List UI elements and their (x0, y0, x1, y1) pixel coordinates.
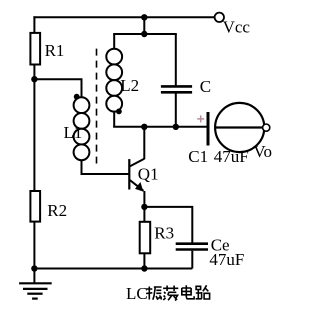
node R3 bottom junction dot (141, 265, 147, 271)
wire L1 bottom to base (82, 160, 130, 174)
node C bottom junction dot (173, 124, 179, 130)
node emitter junction dot (141, 204, 147, 210)
wire divider to L1 top (34, 79, 81, 97)
capacitor C (161, 34, 211, 127)
resistor R1 (30, 33, 64, 65)
node divider junction dot (31, 76, 37, 82)
capacitor C1 plate (188, 112, 248, 166)
svg-text:R3: R3 (154, 224, 174, 243)
node tank top T junction dot (141, 14, 147, 20)
wire tank bottom to C1 (113, 126, 207, 128)
wire bottom rail (34, 268, 192, 270)
output meter Vo circle (215, 103, 272, 161)
inductor L1 (64, 97, 90, 160)
wire L2 bottom lead (113, 111, 115, 127)
capacitor C1 polarity plus (197, 115, 204, 122)
inductor L2 (106, 49, 139, 112)
svg-text:LC: LC (126, 284, 148, 303)
glyph dian (182, 285, 194, 299)
caption LC oscillator circuit (126, 284, 210, 303)
wire L2 top lead (113, 34, 115, 49)
svg-text:Q1: Q1 (138, 164, 159, 183)
svg-text:C1: C1 (188, 147, 208, 166)
node collector junction dot (141, 124, 147, 130)
svg-text:Vo: Vo (253, 142, 272, 161)
wire emitter node to Ce (144, 207, 192, 243)
wire transformer core dashed line (96, 49, 98, 164)
svg-text:R1: R1 (45, 41, 65, 60)
resistor R3 (140, 207, 174, 269)
wire emitter lead (143, 191, 145, 207)
svg-text:47uF: 47uF (209, 250, 244, 269)
wire top Vcc rail (33, 16, 214, 18)
node L1 polarity dot (74, 94, 80, 100)
wire tank top (113, 33, 177, 35)
glyph zhen (146, 287, 162, 300)
terminal Vcc (215, 13, 251, 37)
ground (19, 269, 52, 299)
capacitor Ce (176, 235, 245, 269)
node tank top wire junction dot (141, 31, 147, 37)
wire left rail lower (R2 to ground node) (33, 222, 35, 269)
glyph dang (163, 286, 178, 301)
transistor Q1 (129, 159, 158, 192)
wire left rail mid (R1 bottom through node to R2) (33, 65, 35, 192)
wire left rail upper (top to R1) (33, 16, 35, 33)
svg-text:C: C (200, 77, 211, 96)
svg-text:L2: L2 (120, 76, 139, 95)
svg-text:L1: L1 (64, 123, 83, 142)
wire collector lead (143, 127, 145, 159)
resistor R2 (30, 191, 67, 222)
wire Vcc rail drop to tank (143, 17, 145, 34)
svg-text:R2: R2 (47, 201, 67, 220)
node L2 polarity dot (116, 109, 122, 115)
svg-text:Vcc: Vcc (223, 18, 251, 37)
node ground junction dot (31, 265, 37, 271)
glyph lu (196, 285, 210, 299)
